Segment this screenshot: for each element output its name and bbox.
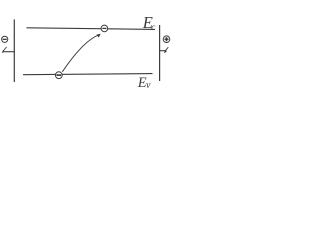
- right electrode Fermi level tick (wire): [160, 50, 167, 52]
- arrow at right contact: [164, 47, 169, 53]
- right electrode boundary (wire): [159, 25, 161, 81]
- electron on valence band (circled minus): [55, 72, 62, 79]
- left electrode boundary (wire): [13, 19, 15, 82]
- conduction band edge line Ec (wire): [27, 28, 156, 30]
- photoexcitation arrow (valence to conduction band): [62, 34, 100, 72]
- electron in left electrode (circled minus): [2, 36, 8, 42]
- arrow at left contact: [2, 47, 7, 53]
- hole in right electrode (circled plus): [163, 36, 170, 43]
- valence band edge line Ev (wire): [23, 74, 153, 75]
- electron on conduction band (circled minus): [101, 25, 108, 32]
- svg-text:Ec: Ec: [142, 13, 156, 33]
- svg-text:Ev: Ev: [137, 75, 151, 91]
- left electrode Fermi level tick (wire): [4, 51, 15, 53]
